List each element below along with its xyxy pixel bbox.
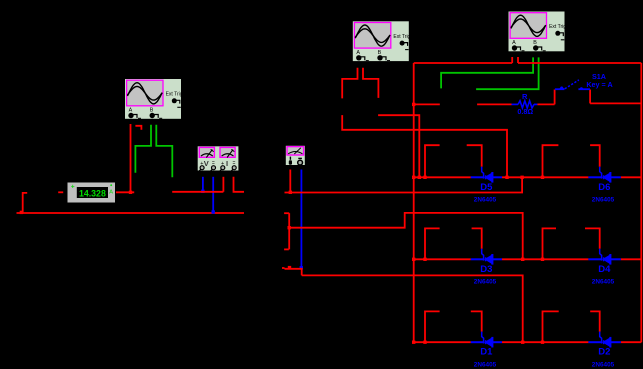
wire aux left D5 — [425, 145, 440, 177]
analog meter XMM2 — [286, 146, 305, 165]
junction blue on ground bus — [212, 210, 215, 213]
value label 2N6405 of D1 — [474, 361, 497, 368]
SCR D1 symbol — [471, 332, 502, 348]
oscilloscope XSC3 — [509, 12, 567, 52]
svg-text:D3: D3 — [480, 264, 492, 275]
resistor R 0.8 Ohm — [512, 101, 538, 108]
svg-text:D2: D2 — [598, 347, 610, 358]
label Key = A — [586, 80, 612, 89]
junction main vertical row D3 — [412, 258, 415, 261]
wire stub to multimeter - — [58, 191, 63, 193]
svg-text:2N6405: 2N6405 — [592, 361, 615, 368]
junction aux right D4 — [541, 258, 544, 261]
value label 0.8 Ohm — [517, 107, 533, 116]
wire V+ blue down to bus — [212, 177, 214, 213]
svg-text:Ext Trig: Ext Trig — [549, 24, 566, 30]
value label 2N6405 of D4 — [592, 279, 615, 286]
value label 2N6405 of D5 — [474, 197, 497, 204]
label D1 — [480, 347, 493, 358]
junction meter3 node — [289, 191, 292, 194]
svg-text:A: A — [512, 40, 516, 46]
junction aux left D3 — [423, 258, 426, 261]
SCR D6 symbol — [588, 167, 620, 183]
svg-text:B: B — [533, 40, 537, 46]
wire scope2 A2 legs — [363, 68, 378, 98]
junction blue on node wire — [201, 190, 204, 193]
wire scope1 A hook stub — [135, 126, 141, 130]
wire gate feed D5 — [467, 145, 482, 167]
wire left main vertical — [413, 63, 415, 342]
wire anode row D5 left — [414, 176, 471, 178]
svg-text:D5: D5 — [480, 182, 493, 193]
junction row3 feed drop — [521, 341, 524, 344]
label D3 — [480, 264, 492, 275]
svg-text:14.328: 14.328 — [79, 188, 106, 198]
wire aux left D1 — [425, 311, 440, 342]
svg-text:I: I — [226, 159, 228, 168]
label D5 — [480, 182, 493, 193]
SCR D5 symbol — [471, 167, 502, 183]
svg-text:+: + — [71, 183, 75, 190]
label S1A — [592, 72, 606, 81]
wire I- red down — [234, 177, 245, 192]
wire scope1 B green left leg — [135, 125, 151, 173]
svg-text:R: R — [522, 92, 528, 101]
wire aux right D2 — [543, 311, 559, 342]
wire V- blue down — [202, 177, 204, 192]
value label 2N6405 of D6 — [592, 197, 615, 204]
oscilloscope XSC2 — [353, 21, 411, 61]
wire scope3 green 2 — [476, 57, 538, 89]
svg-text:2N6405: 2N6405 — [592, 197, 615, 204]
svg-text:0.8Ω: 0.8Ω — [517, 107, 533, 116]
value label 2N6405 of D2 — [592, 361, 615, 368]
multimeter XMM1 reading 14.328 — [68, 183, 116, 203]
value label 2N6405 of D3 — [474, 279, 497, 286]
junction row2 feed drop — [521, 258, 524, 261]
junction main vertical row D1 — [412, 341, 415, 344]
SCR D3 symbol — [471, 249, 502, 265]
wire vertical x289 — [288, 213, 290, 249]
switch left post — [554, 90, 556, 105]
svg-text:2N6405: 2N6405 — [474, 361, 497, 368]
wire source to row1 feed — [342, 115, 507, 177]
wire gate feed D3 — [472, 228, 482, 248]
wire scope1 A down — [130, 124, 132, 192]
wire aux right D6 — [543, 145, 559, 177]
SCR D4 symbol — [588, 249, 620, 265]
wire aux left D3 — [425, 228, 440, 259]
label D2 — [598, 347, 610, 358]
label D6 — [598, 182, 610, 193]
wire anode row D6 right — [621, 176, 642, 178]
wire scope3 A stub — [511, 57, 513, 63]
junction aux left D1 — [423, 341, 426, 344]
svg-text:B: B — [378, 50, 382, 56]
svg-text:A: A — [109, 190, 113, 196]
wire right edge vertical — [640, 63, 642, 342]
label D4 — [598, 264, 611, 275]
wire anode row between D5 D6 — [502, 176, 588, 178]
wire multimeter + to scope A — [116, 191, 134, 193]
wire row2 gate feed long — [289, 213, 523, 259]
svg-text:V: V — [204, 159, 209, 168]
svg-text:Key = A: Key = A — [586, 80, 612, 89]
junction node B on anode row 1 — [520, 176, 523, 179]
wire anode row D2 right — [621, 341, 642, 343]
analog meters XMM-VI — [198, 146, 239, 170]
wire row3 feed long — [302, 275, 523, 342]
wire switch to right edge — [590, 102, 641, 104]
wire gate feed D6 — [590, 145, 600, 167]
svg-text:B: B — [150, 108, 154, 114]
wire anode row between D3 D4 — [502, 258, 588, 260]
wire node B long horizontal — [285, 177, 523, 192]
label R — [522, 92, 528, 101]
wire meter3 - blue down — [300, 170, 302, 269]
svg-text:Ext Trig: Ext Trig — [393, 34, 410, 40]
svg-text:2N6405: 2N6405 — [592, 279, 615, 286]
svg-text:2N6405: 2N6405 — [474, 279, 497, 286]
wire gate feed D4 — [585, 228, 600, 248]
wire scope1 B green right leg — [156, 125, 172, 178]
wire scope2 A legs — [342, 68, 357, 99]
SCR D2 symbol — [588, 332, 620, 348]
wire I+ red down — [222, 177, 224, 192]
junction left vertical top — [412, 103, 415, 106]
wire gate feed D1 — [471, 311, 482, 331]
wire anode row D3 left — [414, 258, 471, 260]
svg-text:D6: D6 — [598, 182, 610, 193]
svg-text:D4: D4 — [598, 264, 611, 275]
junction col2 on anode row1 — [418, 176, 421, 179]
wire top bus right part — [518, 62, 641, 64]
switch right post — [589, 90, 591, 104]
wire aux right D4 — [543, 228, 557, 259]
wire gap to resistor — [477, 103, 511, 105]
svg-text:D1: D1 — [480, 347, 493, 358]
junction on ground bus — [20, 211, 23, 214]
junction main vertical row D5 — [412, 176, 415, 179]
junction aux right D2 — [541, 341, 544, 344]
wire hook at far left — [23, 193, 28, 213]
junction multimeter wire — [129, 191, 132, 194]
svg-text:A: A — [356, 50, 360, 56]
wire meter3 + down — [289, 170, 291, 193]
ground bus wire — [17, 212, 245, 214]
junction aux left D5 — [423, 176, 426, 179]
wire scope3 green 1 — [441, 57, 533, 88]
wire resistor to switch — [537, 103, 554, 105]
wire stub upper — [284, 212, 289, 214]
wire from left vertical to gap — [414, 103, 440, 105]
svg-text:2N6405: 2N6405 — [474, 197, 497, 204]
wire node A — [172, 191, 223, 193]
wire anode row between D1 D2 — [502, 341, 588, 343]
wire source2 to anode column — [378, 115, 419, 177]
wire tick — [282, 267, 285, 269]
junction blue meter3 — [300, 266, 303, 269]
svg-text:Ext Trig: Ext Trig — [166, 92, 183, 98]
svg-text:A: A — [129, 108, 133, 114]
junction row2 feed — [288, 226, 291, 229]
oscilloscope XSC1 — [125, 79, 183, 119]
wire anode row D1 left — [414, 341, 471, 343]
wire anode row D4 right — [621, 258, 642, 260]
wire gate feed D2 — [590, 311, 600, 331]
wire stub lower — [284, 248, 289, 250]
switch S1A contacts — [555, 80, 590, 89]
junction small — [288, 266, 291, 269]
junction row1 feed drop — [505, 176, 508, 179]
junction aux right D6 — [541, 176, 544, 179]
wire top bus left part — [414, 62, 513, 64]
wire scope3 A2 stub — [517, 57, 519, 63]
wire meter3 minus node — [285, 269, 302, 276]
